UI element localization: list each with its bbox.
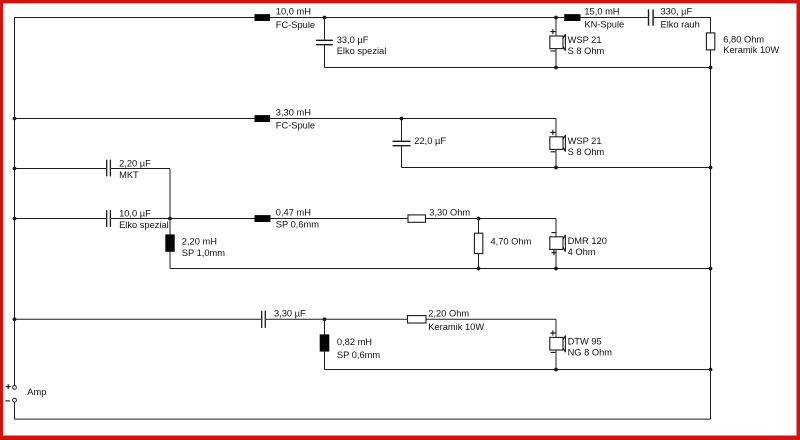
wire bottom return to amp - — [15, 402, 711, 419]
wire DMR bottom leg — [555, 249, 557, 268]
node branch1 return / right bus — [709, 66, 713, 70]
wire L3 to WSP2 — [270, 119, 556, 137]
svg-text:3,30 µF: 3,30 µF — [274, 309, 306, 319]
svg-text:S 8 Ohm: S 8 Ohm — [568, 147, 605, 157]
label L4 — [276, 208, 319, 230]
svg-text:330, µF: 330, µF — [661, 6, 693, 16]
node branch4 / L6 tap — [323, 317, 327, 321]
svg-text:6,80 Ohm: 6,80 Ohm — [723, 35, 764, 45]
wire WSP1 top leg — [555, 18, 557, 37]
svg-text:FC-Spule: FC-Spule — [276, 121, 315, 131]
capacitor C4 2,20 µF MKT — [107, 160, 111, 177]
svg-text:NG 8 Ohm: NG 8 Ohm — [568, 347, 613, 357]
svg-text:FC-Spule: FC-Spule — [276, 20, 315, 30]
label C2 — [661, 6, 700, 29]
svg-text:15,0 mH: 15,0 mH — [584, 6, 619, 16]
node branch2 / + bus — [13, 117, 17, 121]
node A (caps junction) — [168, 217, 172, 221]
svg-text:33,0 µF: 33,0 µF — [337, 35, 369, 45]
svg-text:S 8 Ohm: S 8 Ohm — [568, 46, 605, 56]
wire right bus — [710, 50, 712, 419]
svg-text:10,0 µF: 10,0 µF — [119, 209, 151, 219]
svg-text:10,0 mH: 10,0 mH — [276, 7, 311, 17]
svg-text:2,20 Ohm: 2,20 Ohm — [428, 309, 469, 319]
node branch2 / C3 tap — [400, 117, 404, 121]
wire L4 to R2 — [271, 218, 409, 220]
inductor L3 3,30 mH FC-Spule — [255, 115, 271, 122]
resistor R3 4,70 Ohm (shunt) — [474, 219, 482, 269]
resistor R1 6,80 Ohm Keramik 10W — [706, 33, 714, 50]
node DTW return — [554, 368, 558, 372]
node branch4 return / right bus — [709, 368, 713, 372]
wire MKT to node A — [111, 169, 170, 219]
inductor L4 0,47 mH SP 0,6mm — [255, 215, 271, 222]
speaker U3 DMR 120 — [550, 233, 566, 256]
label L2 — [584, 6, 624, 29]
wire L2 to C2 — [581, 17, 648, 19]
capacitor C2 330 µF Elko rauh — [649, 9, 654, 25]
label U2 WSP 21 — [568, 136, 605, 157]
label C1 — [337, 35, 387, 56]
resistor R2 3,30 Ohm — [408, 215, 426, 222]
node branch1 / C1 tap — [323, 16, 327, 20]
svg-text:Elko rauh: Elko rauh — [661, 20, 700, 30]
label R4 — [428, 309, 484, 333]
amp terminal + — [6, 384, 17, 389]
node branch1 / WSP1 tap — [554, 16, 558, 20]
label L3 — [276, 107, 315, 130]
speaker U1 WSP 21 — [550, 29, 566, 51]
wire branch3 return — [170, 268, 711, 270]
wire branch4 return — [325, 369, 711, 371]
wire DTW bottom leg — [555, 350, 557, 370]
inductor L2 15,0 mH KN-Spule — [564, 14, 580, 21]
wire R2 to DMR — [426, 219, 557, 237]
capacitor C1 33,0 µF Elko spezial — [316, 18, 333, 68]
wire branch3 from bus — [15, 218, 107, 220]
node MKT wire / + bus — [13, 167, 17, 171]
svg-text:Keramik 10W: Keramik 10W — [723, 45, 779, 55]
svg-text:0,82 mH: 0,82 mH — [337, 337, 372, 347]
speaker U4 DTW 95 — [550, 330, 566, 352]
wire R4 to DTW — [426, 319, 556, 337]
svg-text:KN-Spule: KN-Spule — [584, 20, 624, 30]
capacitor C6 3,30 µF — [262, 311, 266, 328]
wire branch2 from bus — [15, 118, 255, 120]
svg-text:4 Ohm: 4 Ohm — [568, 247, 596, 257]
label C5 — [119, 209, 169, 231]
label R2 — [429, 208, 470, 218]
wire WSP2 bottom leg — [555, 149, 557, 167]
inductor L6 0,82 mH SP 0,6mm (shunt) — [320, 319, 330, 369]
resistor R4 2,20 Ohm Keramik 10W — [408, 316, 427, 323]
wire branch1 return — [325, 67, 711, 69]
wire branch2 return — [402, 167, 711, 169]
svg-text:2,20 µF: 2,20 µF — [119, 158, 151, 168]
label U3 DMR 120 — [568, 236, 607, 257]
svg-text:DMR 120: DMR 120 — [568, 236, 607, 246]
wire R1 down to node — [710, 50, 712, 68]
svg-text:DTW 95: DTW 95 — [568, 337, 602, 347]
svg-text:22,0 µF: 22,0 µF — [414, 136, 446, 146]
svg-text:4,70 Ohm: 4,70 Ohm — [491, 236, 532, 246]
node DMR return — [554, 267, 558, 271]
svg-text:SP 0,6mm: SP 0,6mm — [276, 220, 319, 230]
wire branch1 from + bus — [15, 17, 255, 19]
svg-text:Keramik 10W: Keramik 10W — [428, 322, 484, 332]
label U1 WSP 21 — [568, 35, 605, 56]
label U4 DTW 95 — [568, 337, 613, 358]
label C6 — [274, 309, 306, 319]
inductor L5 2,20 mH SP 1,0mm (shunt) — [165, 219, 174, 269]
svg-text:WSP 21: WSP 21 — [568, 136, 602, 146]
node branch3 return / right bus — [709, 267, 713, 271]
label C3 — [414, 136, 446, 146]
wire MKT from bus — [15, 168, 107, 170]
wire left bus (+) — [14, 18, 16, 386]
node branch2 return / right bus — [709, 166, 713, 170]
node WSP1 return — [554, 66, 558, 70]
node branch3 / R3 tap — [477, 217, 481, 221]
inductor L1 10,0 mH FC-Spule — [255, 14, 271, 21]
node branch3 / + bus — [13, 217, 17, 221]
svg-text:MKT: MKT — [119, 170, 139, 180]
label L1 — [276, 7, 315, 30]
wire C2 to R1 — [654, 18, 711, 33]
wire C5 to node A — [111, 218, 170, 220]
svg-text:0,47 mH: 0,47 mH — [276, 208, 311, 218]
speaker U2 WSP 21 — [550, 130, 566, 152]
wire WSP1 bottom leg — [555, 49, 557, 68]
label R3 — [491, 236, 532, 246]
capacitor C3 22,0 µF — [393, 119, 411, 168]
svg-text:SP 1,0mm: SP 1,0mm — [182, 248, 225, 258]
svg-text:Elko spezial: Elko spezial — [337, 46, 387, 56]
svg-text:Elko spezial: Elko spezial — [119, 220, 169, 230]
label R1 — [723, 35, 779, 55]
label L6 — [337, 337, 380, 360]
svg-text:SP 0,6mm: SP 0,6mm — [337, 350, 380, 360]
svg-text:WSP 21: WSP 21 — [568, 35, 602, 45]
label L5 — [182, 237, 225, 259]
capacitor C5 10,0 µF Elko spezial — [107, 210, 111, 227]
node WSP2 return — [554, 166, 558, 170]
svg-text:Amp: Amp — [27, 387, 46, 397]
svg-text:3,30 Ohm: 3,30 Ohm — [429, 208, 470, 218]
wire C6 to R4 — [266, 318, 408, 320]
node branch4 / + bus — [13, 317, 17, 321]
wire L1 to L2 — [270, 17, 564, 19]
wire branch4 from bus — [15, 318, 262, 320]
wire node A to L4 — [170, 218, 255, 220]
amp terminal - — [5, 398, 16, 402]
label C4 — [119, 158, 151, 180]
label Amp — [27, 387, 46, 397]
svg-text:3,30 mH: 3,30 mH — [276, 107, 311, 117]
svg-text:2,20 mH: 2,20 mH — [182, 237, 217, 247]
node R3 return — [477, 267, 481, 271]
